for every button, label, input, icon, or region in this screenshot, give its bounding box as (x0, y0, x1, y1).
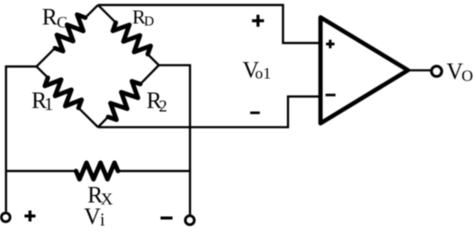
op-amp noninverting input + mark (326, 40, 335, 48)
resistor R_2 (98, 65, 159, 127)
label R_X (88, 183, 113, 209)
wire Rx left lead (6, 170, 76, 172)
label V_i (84, 204, 105, 229)
wire op-amp output to terminal (408, 69, 432, 71)
resistor R_X (76, 163, 118, 180)
- polarity of Vo1 (250, 112, 260, 115)
label R_2 (147, 88, 168, 115)
svg-text:1: 1 (44, 94, 53, 114)
wire bridge left node down to + excitation terminal (6, 67, 37, 212)
+ polarity of Vo1 (252, 15, 264, 27)
wire bridge top node to op-amp noninverting input (98, 5, 321, 43)
svg-text:i: i (100, 209, 105, 229)
- excitation terminal circle (185, 216, 194, 225)
wire bridge bottom node to op-amp inverting input (98, 97, 321, 128)
label R_D (132, 7, 154, 30)
svg-text:D: D (144, 14, 154, 29)
svg-text:o1: o1 (255, 66, 271, 83)
wire Rx right lead (118, 170, 190, 172)
label R_1 (32, 88, 54, 114)
op-amp inverting input - mark (326, 94, 336, 97)
svg-text:R: R (42, 5, 58, 30)
+ polarity of Vi (25, 211, 36, 222)
svg-text:2: 2 (159, 96, 168, 115)
svg-text:X: X (101, 189, 113, 208)
label V_o1 (243, 58, 272, 83)
resistor R_D (98, 5, 159, 65)
output terminal circle (431, 66, 441, 76)
op-amp U1 (321, 17, 409, 123)
+ excitation terminal circle (1, 213, 10, 222)
svg-text:O: O (462, 68, 474, 85)
label R_C (42, 5, 67, 32)
- polarity of Vi (161, 217, 173, 220)
svg-text:V: V (84, 204, 101, 229)
label V_O (447, 59, 474, 85)
wire bridge right node down to - excitation terminal (159, 65, 190, 214)
resistor R_C (37, 5, 99, 67)
svg-text:C: C (57, 15, 68, 32)
resistor R_1 (37, 67, 99, 128)
